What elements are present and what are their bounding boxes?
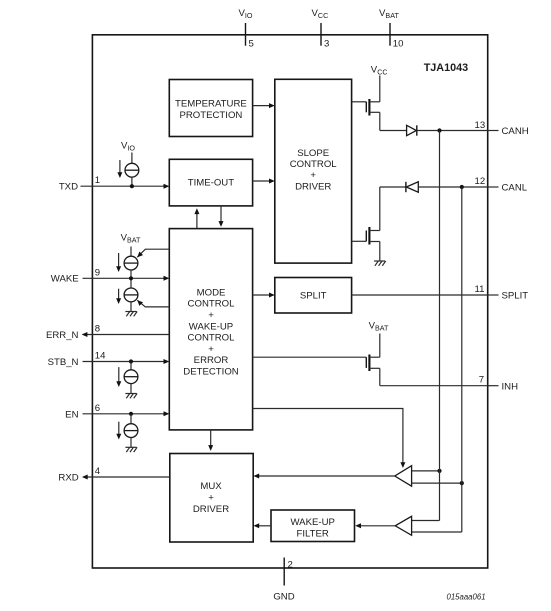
wire mode control to ERR_N [86,334,169,336]
svg-text:8: 8 [95,323,100,334]
svg-text:13: 13 [475,120,486,131]
wire VBAT stub [130,247,132,257]
receiver U1 (CAN receiver) [395,466,412,487]
current source I3 (WAKE pull-down) [124,288,138,302]
arrow down beside I2 [118,253,120,267]
node WAKE junction [129,276,133,280]
pin 12 stub [488,186,499,188]
svg-text:WAKE: WAKE [51,274,79,285]
wire STB_N node to I4 [130,362,132,370]
wire mode control to Q3 gate [253,356,367,358]
svg-text:10: 10 [393,39,404,50]
svg-text:14: 14 [95,351,106,362]
diode D1 CANH [407,125,417,135]
wire temperature protection to slope control [253,105,270,107]
svg-text:CANL: CANL [502,183,528,194]
receiver U2 (wake-up receiver) [395,516,411,535]
wire WAKE to mode control [83,277,165,279]
wire mode control to mux [210,430,212,446]
control arrow mode to I3 [137,300,169,307]
svg-text:6: 6 [95,403,100,414]
svg-text:WAKE-UP: WAKE-UP [290,517,334,528]
svg-text:TJA1043: TJA1043 [424,62,468,74]
ground at I4 [125,394,137,399]
svg-text:TEMPERATURE: TEMPERATURE [175,99,247,110]
svg-text:4: 4 [95,466,101,477]
box split [275,278,352,314]
arrow down beside I5 [118,422,120,435]
wire mode control to receiver enable [253,409,403,463]
ground at I5 [125,447,137,452]
box time-out [169,159,252,206]
pin 5 tick [245,23,247,46]
wire time-out to mode control (arrow down) [220,206,222,222]
svg-text:ERROR: ERROR [194,355,229,366]
pin 7 stub [488,385,499,387]
transistor Q2 CANL driver [352,187,380,261]
svg-text:+: + [208,493,214,504]
ground at I3 [125,312,137,317]
wire Q3 to INH pin [380,385,488,387]
svg-text:INH: INH [502,381,519,392]
wire VCC stub [379,76,381,102]
wire bus CANH to U1 [412,470,440,472]
pin 11 stub [488,294,499,296]
svg-text:RXD: RXD [58,473,78,484]
svg-text:FILTER: FILTER [297,528,329,539]
svg-text:GND: GND [273,592,294,603]
wire wake-up filter to mux [259,525,272,527]
wire STB_N to mode control [83,361,165,363]
wire bus CANL to U1 [412,482,462,484]
node bus CANH at U1 [437,469,441,473]
arrow down beside I3 [118,289,120,299]
svg-text:PROTECTION: PROTECTION [179,110,242,121]
box mode control + wake-up control + error detection [169,229,252,430]
wire VBAT stub at Q3 [379,334,381,358]
box mux + driver [170,454,253,543]
svg-text:+: + [310,170,316,181]
box slope control + driver [275,79,352,263]
svg-text:TIME-OUT: TIME-OUT [188,178,235,189]
svg-text:MODE: MODE [197,287,226,298]
wire D1 to CANH pin [417,130,488,132]
wire I1 to TXD node [131,177,133,186]
wire split to pin 11 [352,294,488,296]
svg-text:2: 2 [288,560,293,571]
wire Q2 drain to diode [380,186,406,188]
svg-text:1: 1 [95,175,100,186]
wire bus CANL to U2 [412,531,462,533]
wire receiver U1 to mux [259,475,395,477]
wire bus CANH to U2 [412,520,440,522]
control arrow mode to I2 [137,249,169,257]
transistor Q3 INH switch [366,355,380,386]
pin 10 tick [389,23,391,46]
wire mux to RXD [86,476,170,478]
wire D2 to CANL pin [418,186,487,188]
current source I2 (WAKE pull-up) [124,256,138,270]
wire mode control to split [253,294,270,296]
pin 3 tick [320,23,322,46]
svg-text:WAKE-UP: WAKE-UP [189,321,233,332]
svg-text:CONTROL: CONTROL [290,159,338,170]
current source I4 (STB_N pull-down) [124,370,138,384]
svg-text:STB_N: STB_N [48,357,79,368]
wire EN node to I5 [130,414,132,424]
arrow down beside I4 [118,367,120,382]
diode D2 CANL [406,182,418,192]
arrow down beside I1 [119,160,121,173]
wire EN to mode control [83,413,165,415]
svg-text:SPLIT: SPLIT [502,291,529,302]
wire bus CANH vertical [439,131,441,521]
wire VIO stub [131,153,133,164]
svg-text:CONTROL: CONTROL [188,299,236,310]
svg-text:5: 5 [249,39,254,50]
svg-text:TXD: TXD [59,182,78,193]
svg-text:DRIVER: DRIVER [193,504,229,515]
svg-text:11: 11 [475,284,485,295]
box wake-up filter [271,510,355,542]
node TXD junction [130,184,134,188]
svg-text:12: 12 [475,176,486,187]
wire Q1 source to diode [380,130,407,132]
node EN junction [129,412,133,416]
svg-text:+: + [208,310,214,321]
svg-text:DETECTION: DETECTION [183,367,239,378]
svg-text:015aaa061: 015aaa061 [447,593,486,602]
svg-text:MUX: MUX [200,481,222,492]
transistor Q1 CANH driver [352,99,380,131]
svg-text:CONTROL: CONTROL [188,333,236,344]
svg-text:SPLIT: SPLIT [300,290,327,301]
node CANL bus junction [460,185,464,189]
ground at Q2 [374,261,386,266]
pin 2 tick [283,558,285,586]
wire TXD to time-out [81,185,165,187]
svg-text:SLOPE: SLOPE [297,148,329,159]
svg-text:EN: EN [65,409,78,420]
node STB_N junction [129,359,133,363]
svg-text:7: 7 [479,375,484,386]
wire I4 to ground [130,384,132,394]
wire I3 to ground [130,302,132,312]
svg-text:9: 9 [95,267,100,278]
svg-text:ERR_N: ERR_N [46,330,79,341]
wire time-out to slope control [253,180,270,182]
svg-text:+: + [208,344,214,355]
box temperature protection [169,80,252,137]
node CANH bus junction [437,128,441,132]
svg-text:DRIVER: DRIVER [295,181,331,192]
wire bus CANL vertical [461,187,463,532]
svg-text:3: 3 [324,39,329,50]
wire I2 to WAKE node [130,270,132,288]
wire receiver U2 to wake-up filter [360,525,395,527]
pin 13 stub [488,130,499,132]
node bus CANL at U1 [460,481,464,485]
wire mode control to time-out (arrow up) [196,214,198,229]
svg-text:CANH: CANH [502,126,529,137]
current source I1 (TXD pull-up) [125,163,139,177]
current source I5 (EN pull-down) [124,424,138,438]
chip outline TJA1043 [92,35,487,568]
wire I5 to ground [130,438,132,448]
